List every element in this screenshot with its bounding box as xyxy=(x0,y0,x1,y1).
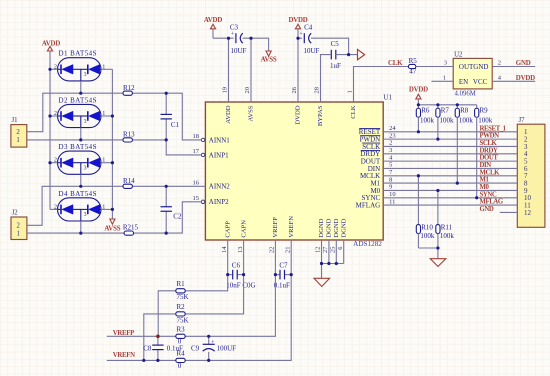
svg-text:CAPN: CAPN xyxy=(240,220,247,238)
svg-text:3: 3 xyxy=(444,60,447,67)
svg-text:PWDN: PWDN xyxy=(480,133,500,140)
svg-text:R13: R13 xyxy=(123,131,135,139)
svg-text:D4 BAT54S: D4 BAT54S xyxy=(59,190,97,198)
power AVDD (top) xyxy=(204,17,222,38)
svg-text:AVDD: AVDD xyxy=(42,41,60,48)
svg-text:BYPAS: BYPAS xyxy=(317,105,324,126)
wire row DOUT xyxy=(383,160,517,162)
U1 bottom pin numbers xyxy=(221,246,344,253)
svg-text:R3: R3 xyxy=(177,325,186,333)
svg-text:3: 3 xyxy=(389,147,392,154)
svg-text:AINN2: AINN2 xyxy=(209,183,230,191)
svg-text:4.096M: 4.096M xyxy=(455,91,476,98)
resistor R10 100k xyxy=(416,176,435,248)
net label CLK xyxy=(388,60,403,67)
svg-text:J7: J7 xyxy=(519,117,526,124)
net label PWDN xyxy=(480,133,500,140)
connector J2 xyxy=(11,210,27,240)
svg-text:R8: R8 xyxy=(460,107,469,115)
wire pull-up bus xyxy=(418,104,476,106)
svg-text:U1: U1 xyxy=(383,94,392,102)
resistor R215 xyxy=(123,224,139,236)
svg-text:AVDD: AVDD xyxy=(225,105,232,123)
svg-text:22: 22 xyxy=(269,247,276,254)
svg-text:MFLAG: MFLAG xyxy=(356,202,381,210)
svg-text:14: 14 xyxy=(221,246,228,253)
wire row SYNC xyxy=(383,197,517,199)
svg-text:28: 28 xyxy=(314,87,321,94)
wire pin19 riser xyxy=(228,38,230,102)
svg-text:C5: C5 xyxy=(331,40,340,48)
svg-text:DVDD: DVDD xyxy=(409,87,428,94)
svg-text:C8: C8 xyxy=(143,344,152,352)
wire row DIN xyxy=(383,167,517,169)
svg-text:100k: 100k xyxy=(440,116,455,124)
wire R14 row (J2.2/D3.3 to AINN2) xyxy=(27,186,206,225)
net label VREFN xyxy=(113,352,135,359)
net label SCLK xyxy=(480,140,498,147)
svg-text:CAPP: CAPP xyxy=(224,221,231,238)
svg-text:SYNC: SYNC xyxy=(480,191,497,198)
svg-text:R1: R1 xyxy=(177,280,186,288)
U1 right pin numbers xyxy=(389,125,396,205)
U1 left pin numbers xyxy=(193,133,200,202)
wire pin26 riser xyxy=(297,38,299,102)
wire row GND xyxy=(500,211,518,213)
wire AINP1 riser xyxy=(166,140,201,155)
resistor R9 100k xyxy=(475,105,493,198)
svg-text:C6: C6 xyxy=(232,261,241,269)
svg-text:15: 15 xyxy=(193,195,200,202)
power DVDD (pull-ups) xyxy=(409,87,428,105)
svg-text:C4: C4 xyxy=(304,24,313,32)
svg-text:R9: R9 xyxy=(480,107,489,115)
wire VREFN riser xyxy=(290,240,292,275)
wire U2.2 GND stub xyxy=(492,66,535,68)
net label SYNC xyxy=(480,191,497,198)
wire U2.1 EN stub xyxy=(432,80,454,82)
svg-text:R215: R215 xyxy=(123,224,139,232)
svg-text:DRDY: DRDY xyxy=(480,147,498,154)
svg-text:10nF C0G: 10nF C0G xyxy=(226,282,255,290)
wire VREFP row xyxy=(107,275,276,337)
svg-text:J1: J1 xyxy=(12,117,18,124)
svg-text:2: 2 xyxy=(16,129,20,136)
svg-text:23: 23 xyxy=(389,132,396,139)
capacitor C9 100UF xyxy=(191,336,236,360)
svg-text:U2: U2 xyxy=(454,51,463,58)
capacitor C7 0.1uF xyxy=(274,261,291,289)
svg-text:0.1uF: 0.1uF xyxy=(167,344,183,352)
svg-text:RESET_1: RESET_1 xyxy=(480,125,507,132)
svg-text:DGND: DGND xyxy=(326,218,333,237)
svg-text:100k: 100k xyxy=(420,116,435,124)
svg-text:13: 13 xyxy=(237,247,244,254)
svg-text:VREFP: VREFP xyxy=(272,217,279,238)
svg-text:R2: R2 xyxy=(177,303,186,311)
svg-text:EN: EN xyxy=(459,78,468,86)
net label DIN xyxy=(480,162,492,169)
resistor R4 0 xyxy=(176,349,185,370)
svg-text:3: 3 xyxy=(84,212,87,218)
svg-text:AVSS: AVSS xyxy=(261,57,277,64)
svg-text:3: 3 xyxy=(84,119,87,125)
net label MCLK xyxy=(480,169,501,176)
svg-text:CLK: CLK xyxy=(388,60,403,67)
svg-text:C7: C7 xyxy=(279,261,288,269)
net label M1 xyxy=(480,177,490,184)
wire row RESET_1 xyxy=(383,131,517,133)
svg-text:8: 8 xyxy=(389,176,392,183)
resistor R1 75K xyxy=(176,280,189,301)
svg-text:1: 1 xyxy=(443,75,446,82)
svg-text:100k: 100k xyxy=(478,116,493,124)
svg-text:AINP2: AINP2 xyxy=(209,198,229,206)
svg-text:DVDD: DVDD xyxy=(516,75,535,82)
wire U2.4 VCC stub xyxy=(492,80,535,82)
svg-text:R10: R10 xyxy=(421,224,433,232)
wire row MCLK xyxy=(383,175,517,177)
svg-text:17: 17 xyxy=(193,148,200,155)
svg-text:20: 20 xyxy=(244,87,251,94)
svg-text:C3: C3 xyxy=(230,24,239,32)
svg-text:J2: J2 xyxy=(12,210,19,217)
U1 top pin names xyxy=(225,105,357,126)
svg-text:100k: 100k xyxy=(440,232,455,240)
svg-text:1: 1 xyxy=(16,137,19,144)
net label GND (U2) xyxy=(516,60,531,67)
capacitor C1 xyxy=(161,93,180,140)
svg-text:ADS1282: ADS1282 xyxy=(353,240,382,248)
svg-text:16: 16 xyxy=(193,179,200,186)
power DVDD (top) xyxy=(288,17,307,38)
svg-text:1: 1 xyxy=(347,90,354,93)
capacitor C6 10nF C0G xyxy=(226,261,255,289)
svg-text:GND: GND xyxy=(480,206,494,213)
power AVDD (left) xyxy=(42,41,60,70)
wire VREFN row xyxy=(107,275,291,361)
svg-text:75K: 75K xyxy=(177,293,189,301)
wire left AVDD bus xyxy=(49,69,51,209)
resistor R13 xyxy=(123,131,135,142)
wire CAPP riser xyxy=(227,240,229,275)
wire row DRDY xyxy=(383,153,517,155)
svg-text:SCLK: SCLK xyxy=(480,140,498,147)
wire R1 row (CAPP to C8 node) xyxy=(158,275,228,337)
svg-text:M0: M0 xyxy=(480,184,490,191)
wire C3 to AVSS xyxy=(243,38,269,51)
power AVSS (top) xyxy=(261,51,277,64)
wire R2 row (CAPN to VREFN) xyxy=(144,275,244,361)
capacitor C8 0.1uF xyxy=(143,336,183,360)
wire pin20 riser xyxy=(250,38,252,102)
svg-text:2: 2 xyxy=(498,60,501,67)
svg-text:19: 19 xyxy=(222,87,229,94)
resistor R11 100k xyxy=(436,190,455,248)
net label DOUT xyxy=(480,155,499,162)
svg-text:10UF: 10UF xyxy=(231,47,247,55)
svg-text:0: 0 xyxy=(178,362,182,370)
wire CLK (pin1 to R5) xyxy=(354,67,409,103)
svg-text:26: 26 xyxy=(291,86,298,93)
svg-text:DGND: DGND xyxy=(318,218,325,237)
svg-text:R5: R5 xyxy=(409,57,418,65)
oscillator U2 4.096M xyxy=(443,51,501,97)
net label MFLAG xyxy=(480,199,504,206)
U1 right pin names xyxy=(356,128,381,209)
svg-text:1: 1 xyxy=(16,230,19,237)
svg-text:C2: C2 xyxy=(173,213,182,221)
resistor R6 100k xyxy=(416,105,434,132)
wire row M0 xyxy=(383,189,517,191)
svg-text:25: 25 xyxy=(330,247,337,254)
wire DVDD to C4 xyxy=(298,37,302,39)
svg-text:CLK: CLK xyxy=(350,105,357,118)
wire row PWDN xyxy=(383,138,517,140)
svg-text:75K: 75K xyxy=(177,316,189,324)
connector J1 xyxy=(11,117,27,147)
svg-text:10: 10 xyxy=(389,191,396,198)
svg-text:12: 12 xyxy=(524,209,532,217)
svg-text:R12: R12 xyxy=(123,84,135,92)
power AVSS (left) xyxy=(104,219,120,233)
svg-text:100k: 100k xyxy=(459,116,474,124)
svg-text:R7: R7 xyxy=(441,107,450,115)
svg-text:GND: GND xyxy=(516,60,531,67)
resistor R12 row wire (J1.2/D1.3 to C1/AINN1) xyxy=(27,93,202,140)
wire diode pin stubs xyxy=(50,69,112,209)
diode D1 BAT54S xyxy=(54,50,105,81)
wire DGND pins join xyxy=(322,240,344,264)
svg-text:100UF: 100UF xyxy=(217,344,237,352)
svg-text:D1 BAT54S: D1 BAT54S xyxy=(59,50,97,58)
net label M0 xyxy=(480,184,490,191)
resistor R7 100k xyxy=(436,105,454,139)
svg-text:4: 4 xyxy=(498,75,501,82)
wire right AVSS bus xyxy=(111,69,113,219)
svg-text:11: 11 xyxy=(389,198,395,205)
svg-text:DVDD: DVDD xyxy=(295,105,302,124)
resistor R14 xyxy=(123,177,135,188)
svg-text:D3 BAT54S: D3 BAT54S xyxy=(59,143,97,151)
wire row MFLAG xyxy=(383,204,517,206)
svg-text:AVDD: AVDD xyxy=(204,17,222,24)
capacitor C3 10UF xyxy=(230,24,247,56)
svg-text:100k: 100k xyxy=(420,232,435,240)
svg-text:DIN: DIN xyxy=(480,162,492,169)
svg-text:AINN1: AINN1 xyxy=(209,136,230,144)
svg-text:M1: M1 xyxy=(480,177,490,184)
svg-text:47: 47 xyxy=(409,68,417,76)
svg-text:3: 3 xyxy=(84,72,87,78)
svg-text:D2 BAT54S: D2 BAT54S xyxy=(59,96,97,104)
junction dot C8 top (red) xyxy=(156,335,160,339)
svg-text:21: 21 xyxy=(284,247,291,254)
net label GND (J7) xyxy=(480,206,494,213)
svg-text:AVSS: AVSS xyxy=(248,105,255,121)
svg-text:AINP1: AINP1 xyxy=(209,151,229,159)
svg-text:VREFP: VREFP xyxy=(113,330,134,337)
U1 bottom pin names xyxy=(224,216,347,238)
net label RESET_1 xyxy=(480,125,507,132)
svg-text:R11: R11 xyxy=(441,224,453,232)
U1 left pin names xyxy=(209,136,230,206)
svg-text:2: 2 xyxy=(389,140,392,147)
net label DVDD (U2) xyxy=(516,75,535,82)
wire C5 to power port xyxy=(336,54,358,56)
capacitor C5 1uF xyxy=(330,40,341,70)
svg-text:AVSS: AVSS xyxy=(104,226,120,233)
svg-text:C1: C1 xyxy=(171,121,180,129)
svg-text:MCLK: MCLK xyxy=(480,169,501,176)
svg-text:DGND: DGND xyxy=(333,218,340,237)
svg-text:5: 5 xyxy=(389,162,392,169)
svg-text:2: 2 xyxy=(16,223,20,230)
U1 input pin circles (18,17,15) xyxy=(201,138,204,203)
diode D4 BAT54S xyxy=(54,190,105,221)
svg-text:C9: C9 xyxy=(191,344,200,352)
connector J7 xyxy=(517,117,545,227)
svg-text:12: 12 xyxy=(315,247,322,254)
svg-text:MFLAG: MFLAG xyxy=(480,199,504,206)
svg-text:R6: R6 xyxy=(421,107,430,115)
svg-text:DGND: DGND xyxy=(340,218,347,237)
wire row M1 xyxy=(383,182,517,184)
svg-text:3: 3 xyxy=(84,166,87,172)
svg-text:+: + xyxy=(299,30,303,37)
svg-text:9: 9 xyxy=(389,184,392,191)
svg-text:1uF: 1uF xyxy=(330,62,341,70)
wire VREFP riser xyxy=(274,240,276,275)
svg-text:10UF: 10UF xyxy=(304,47,320,55)
diode D2 BAT54S xyxy=(54,96,105,127)
IC U1 ADS1282 body xyxy=(205,94,392,249)
wire AVDD to C3 xyxy=(213,37,234,39)
wire row SCLK xyxy=(383,145,517,147)
svg-text:24: 24 xyxy=(389,125,396,132)
svg-text:VREFN: VREFN xyxy=(288,216,295,238)
ground (R10/R11) xyxy=(430,248,446,267)
diode D3 BAT54S xyxy=(54,143,105,174)
wire C4 to bypass node xyxy=(311,38,349,54)
svg-text:+: + xyxy=(211,339,215,346)
capacitor C2 xyxy=(161,186,182,233)
U1 top pin numbers xyxy=(222,86,354,93)
power port arrow (bypass) xyxy=(358,49,365,59)
svg-text:27: 27 xyxy=(322,246,329,253)
resistor R3 0 xyxy=(176,325,185,345)
wire R215 row (J2.1/D4.3 to AINP2) xyxy=(27,202,201,233)
wire diode center taps xyxy=(80,81,82,233)
wire R5 to U2.3 xyxy=(416,66,453,68)
ground (DGND) xyxy=(314,264,330,287)
svg-text:OUTGND: OUTGND xyxy=(459,63,489,71)
svg-text:VREFN: VREFN xyxy=(113,352,135,359)
svg-text:R14: R14 xyxy=(123,177,135,185)
resistor R2 75K xyxy=(176,303,189,324)
wire CAPN riser xyxy=(243,240,245,275)
wire R10/R11 join xyxy=(418,247,438,249)
svg-text:VCC: VCC xyxy=(473,78,488,86)
svg-text:18: 18 xyxy=(193,133,200,140)
net label VREFP xyxy=(113,330,134,337)
wire pin28 to C5 xyxy=(321,55,332,102)
resistor R12 xyxy=(123,84,135,95)
net label DRDY xyxy=(480,147,498,154)
resistor R8 100k xyxy=(455,105,473,183)
resistor R5 47 xyxy=(408,57,417,76)
svg-text:DOUT: DOUT xyxy=(480,155,499,162)
capacitor C4 10UF xyxy=(299,24,319,56)
svg-text:0.1uF: 0.1uF xyxy=(274,282,290,290)
wire R13 row (J1.1 to C1 bottom) xyxy=(27,139,166,141)
